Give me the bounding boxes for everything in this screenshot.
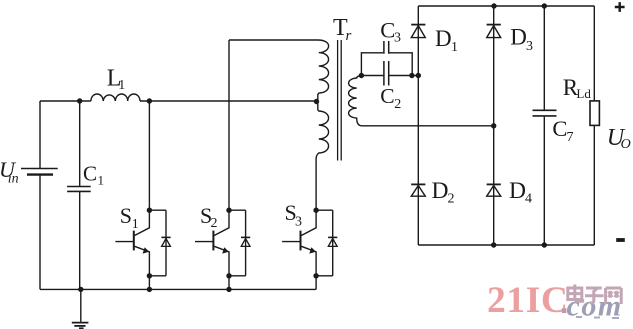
node: C2 right <box>409 73 414 78</box>
capacitor C2 plates <box>384 61 389 86</box>
diode of S3 <box>328 237 337 246</box>
svg-text:C: C <box>380 84 394 108</box>
wire: S3 to bottom rail <box>315 276 317 290</box>
capacitor C3 plates <box>384 41 389 54</box>
node: top rail C7 <box>542 3 547 8</box>
node: bottom rail D4 <box>491 242 496 247</box>
svg-text:O: O <box>621 137 631 152</box>
transformer core bars <box>337 40 339 161</box>
capacitor C1 plates <box>67 186 91 188</box>
wire: load rail <box>593 6 595 245</box>
svg-text:1: 1 <box>451 40 458 55</box>
transistor S3 <box>282 208 333 279</box>
svg-text:S: S <box>120 203 132 228</box>
svg-text:Ld: Ld <box>576 86 591 101</box>
node: top rail D3 <box>491 3 496 8</box>
svg-text:in: in <box>8 172 19 187</box>
svg-text:D: D <box>510 24 527 49</box>
wire: bridge bottom rail to - <box>418 244 594 246</box>
svg-text:D: D <box>432 178 449 204</box>
transformer T_r primary winding <box>316 40 329 210</box>
wire: left input rail <box>39 101 41 289</box>
svg-text:2: 2 <box>448 192 455 207</box>
node: bridge left AC input <box>416 73 421 78</box>
diode of S1 <box>161 237 170 246</box>
capacitor C7 plates <box>533 109 557 111</box>
wire: bridge left rail (D1/D2) <box>417 6 419 245</box>
resistor R_Ld body <box>590 101 599 126</box>
diode D2 <box>411 183 425 185</box>
transformer T_r secondary winding <box>349 76 362 126</box>
wire: L1 right to primary centre tap <box>140 100 317 102</box>
wire: bridge top rail to + <box>418 5 594 7</box>
wire: top wire to transformer primary top <box>229 39 316 41</box>
diode of S2 <box>241 237 250 246</box>
wire: C2 series wire <box>361 75 418 77</box>
minus terminal <box>616 238 625 242</box>
voltage source U_in battery plates <box>21 168 58 170</box>
inductor L1 <box>91 94 140 101</box>
wire: top left rail from input to L1 <box>40 100 91 102</box>
node: L1 right junction <box>147 98 152 103</box>
diode D4 <box>487 183 501 185</box>
transistor S2 <box>195 208 246 279</box>
svg-text:3: 3 <box>295 215 302 230</box>
node: primary centre tap <box>314 99 319 104</box>
svg-text:7: 7 <box>567 130 574 145</box>
capacitor C7 rail <box>543 6 545 245</box>
wire: bridge right rail (D3/D4) <box>493 6 495 245</box>
watermark 21IC.com <box>487 280 623 323</box>
svg-text:1: 1 <box>132 217 139 232</box>
wire: C3 parallel loop <box>361 53 412 76</box>
node: bottom rail C7 <box>542 242 547 247</box>
transistor S1 <box>115 101 166 278</box>
svg-text:3: 3 <box>394 31 401 46</box>
svg-text:D: D <box>435 26 452 51</box>
svg-text:r: r <box>346 28 352 44</box>
wire: bottom ground rail <box>40 288 316 290</box>
plus terminal <box>615 2 625 12</box>
node: secondary bottom to bridge <box>491 123 496 128</box>
svg-text:D: D <box>509 178 526 204</box>
svg-text:21IC: 21IC <box>487 280 569 321</box>
node: C1 top junction <box>77 98 82 103</box>
svg-text:3: 3 <box>526 39 533 54</box>
svg-text:2: 2 <box>211 216 218 231</box>
svg-text:2: 2 <box>394 97 401 112</box>
wire: S1 to bottom rail <box>147 276 152 292</box>
svg-text:1: 1 <box>118 78 125 93</box>
svg-text:C: C <box>552 116 567 141</box>
wire: S2 gate rail riser to top wire <box>228 40 230 210</box>
diode D3 <box>487 24 501 26</box>
capacitor C1 branch wires <box>79 101 81 289</box>
node: secondary top / C2 left <box>359 73 364 78</box>
ground <box>80 289 82 321</box>
wire: S2 to bottom rail <box>226 276 231 292</box>
svg-text:C: C <box>83 162 97 186</box>
svg-text:1: 1 <box>98 172 105 187</box>
node: C1 bottom / ground junction <box>78 287 83 292</box>
wire: secondary bottom lead to D3/D4 midpoint <box>362 125 494 127</box>
svg-text:4: 4 <box>525 192 532 207</box>
diode D1 <box>411 24 425 26</box>
